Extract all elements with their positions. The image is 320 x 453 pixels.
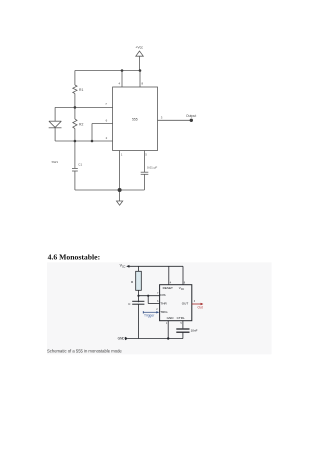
svg-text:R2: R2 <box>79 122 83 126</box>
svg-text:2: 2 <box>106 136 108 140</box>
svg-text:RESET: RESET <box>163 286 173 290</box>
svg-text:SW1: SW1 <box>52 160 59 164</box>
svg-text:THR: THR <box>160 302 167 306</box>
svg-text:7: 7 <box>105 102 107 106</box>
svg-text:1: 1 <box>121 152 123 156</box>
svg-text:Schematic of a 555 in monostab: Schematic of a 555 in monostable mode <box>47 348 122 353</box>
svg-text:Out: Out <box>198 305 203 309</box>
svg-text:5: 5 <box>145 152 147 156</box>
svg-text:+Vcc: +Vcc <box>135 46 143 50</box>
svg-text:6: 6 <box>106 118 108 122</box>
svg-text:3: 3 <box>161 115 163 119</box>
svg-text:OUT: OUT <box>182 302 189 306</box>
svg-text:Output: Output <box>186 114 196 118</box>
svg-text:DIS: DIS <box>160 293 165 297</box>
svg-text:TRIG: TRIG <box>160 310 168 314</box>
svg-text:555: 555 <box>132 117 138 121</box>
svg-text:8: 8 <box>142 82 144 86</box>
svg-text:GND: GND <box>167 316 175 320</box>
svg-text:R1: R1 <box>79 88 83 92</box>
svg-text:4.6 Monostable:: 4.6 Monostable: <box>48 253 101 262</box>
svg-text:Trigger: Trigger <box>144 314 155 318</box>
svg-text:CTRL: CTRL <box>177 316 185 320</box>
svg-text:0.01 μF: 0.01 μF <box>147 165 157 169</box>
svg-text:GND: GND <box>118 337 126 341</box>
svg-text:4: 4 <box>119 82 121 86</box>
svg-text:C1: C1 <box>78 163 82 167</box>
svg-text:10nF: 10nF <box>191 328 198 332</box>
